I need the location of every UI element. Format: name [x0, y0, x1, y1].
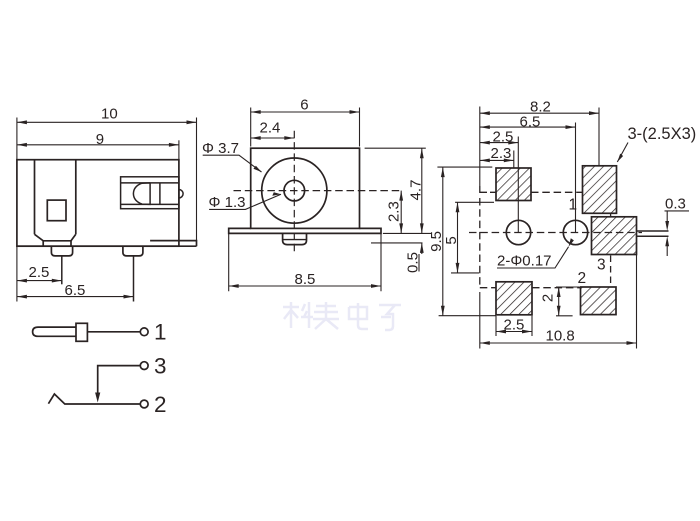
pin1 terminal circle	[140, 328, 148, 336]
bottom edge extended	[17, 245, 197, 247]
bump inner line	[283, 239, 307, 241]
ext 6.5 right	[575, 123, 577, 233]
body	[251, 148, 360, 228]
watermark	[283, 302, 401, 330]
ext 9.5 top	[437, 166, 492, 168]
contact divider	[159, 183, 161, 205]
pad top-left	[496, 168, 531, 201]
left view dimensions	[17, 118, 197, 302]
ext 2 dim bottom	[556, 315, 573, 317]
svg-text:10: 10	[101, 106, 118, 123]
hole right	[563, 220, 587, 244]
outline bottom dashed	[480, 287, 581, 289]
svg-text:4.7: 4.7	[407, 180, 424, 201]
ext 2 dim top	[556, 286, 579, 288]
svg-text:2: 2	[154, 392, 167, 417]
contact housing	[121, 177, 179, 209]
svg-text:8.5: 8.5	[295, 271, 316, 288]
dim line 10	[17, 121, 197, 123]
dim line 9	[17, 144, 179, 146]
svg-text:3-(2.5X3): 3-(2.5X3)	[628, 125, 697, 143]
pin2 wire with spring	[48, 394, 140, 404]
foot ticks	[43, 241, 71, 246]
arrows 9.5	[441, 167, 445, 177]
ext 2.3 right	[513, 151, 515, 169]
contact inner bottom line	[121, 203, 179, 205]
ext left main	[479, 107, 481, 187]
dim line 2	[558, 287, 560, 316]
dim line 6.5	[17, 296, 134, 298]
ext line left	[16, 118, 18, 302]
pin1 wire	[87, 331, 140, 333]
arrows 2	[557, 287, 561, 297]
outline left dashed	[479, 198, 481, 288]
left pin	[51, 246, 72, 256]
dim line 2.3	[400, 191, 402, 234]
middle view dimensions	[203, 108, 432, 292]
hole left	[506, 220, 530, 244]
dim line 5	[457, 202, 459, 273]
arrows 6	[251, 110, 261, 114]
arrows 5	[456, 202, 460, 212]
pin tip bulge	[179, 190, 183, 198]
pin1 collar rect	[76, 323, 87, 341]
ext 2.5b left	[495, 316, 497, 336]
arrows 6.5	[480, 125, 490, 129]
ext 10.8 right	[636, 255, 638, 349]
ext 2.5b right	[531, 316, 533, 336]
svg-text:1: 1	[569, 197, 578, 214]
dim line 2.4	[251, 137, 295, 139]
contact inner top line	[121, 182, 179, 184]
svg-text:2.3: 2.3	[491, 145, 512, 162]
ext 2.5 right	[517, 137, 519, 233]
inner square window	[47, 200, 66, 221]
centerlines	[234, 131, 402, 253]
ext top right 4.7	[365, 147, 426, 149]
arrows 2.5b	[496, 330, 506, 334]
dim line 2.5	[17, 280, 62, 282]
arrow phi3.7	[253, 166, 261, 172]
ext flange bottom right	[383, 232, 431, 234]
pin3 terminal circle	[140, 362, 148, 370]
pad 1 top-right	[583, 166, 617, 214]
svg-text:2.5: 2.5	[493, 128, 514, 145]
ext 5 bottom	[451, 272, 479, 274]
svg-text:1: 1	[154, 320, 167, 345]
ext line right 9	[178, 140, 180, 159]
dashed outline	[469, 186, 669, 288]
arrows 10	[17, 120, 27, 124]
svg-text:2.5: 2.5	[504, 317, 525, 334]
right pin	[123, 246, 143, 256]
arrow leader pads	[617, 154, 623, 162]
dim 0.5 stem	[421, 243, 423, 254]
pin2 terminal circle	[140, 400, 148, 408]
svg-text:2.3: 2.3	[385, 201, 402, 222]
leader 3-(2.5X3)	[617, 143, 628, 163]
svg-text:6.5: 6.5	[65, 282, 86, 299]
svg-text:6: 6	[300, 97, 308, 114]
dim 0.5 underline	[418, 254, 420, 272]
horizontal centerline	[234, 190, 402, 192]
vertical centerline	[293, 131, 295, 253]
right flange	[150, 241, 196, 247]
pin3 arrowhead	[95, 393, 100, 403]
outline top dashed	[490, 191, 582, 193]
bump	[283, 233, 307, 244]
svg-text:2.5: 2.5	[29, 264, 50, 281]
arrow 2-phi0.17	[569, 238, 574, 247]
right view dimensions	[437, 107, 689, 349]
dim line 4.7	[421, 148, 423, 233]
arrows 9	[17, 143, 27, 147]
arrows 2.3	[480, 159, 490, 163]
arrows 10.8	[480, 341, 490, 345]
contact bullet	[133, 183, 150, 205]
arrows 2.5	[17, 279, 27, 283]
pin wires	[61, 256, 63, 284]
pin1 barrel capsule	[33, 327, 76, 336]
svg-text:6.5: 6.5	[520, 113, 541, 130]
ext 8.2 right	[598, 108, 600, 166]
arrows 4.7	[420, 148, 424, 158]
lead lines 0.3	[637, 231, 669, 236]
svg-text:9: 9	[96, 131, 104, 148]
svg-text:2: 2	[539, 294, 556, 302]
arrows 2.4	[251, 136, 261, 140]
body outline	[17, 160, 179, 247]
small circle	[284, 180, 305, 201]
ext lines 8.5	[229, 233, 381, 291]
arrow 0.5	[420, 243, 424, 253]
svg-text:10.8: 10.8	[546, 328, 575, 345]
arrow phi1.3	[272, 192, 281, 196]
svg-text:0.5: 0.5	[404, 252, 421, 273]
flange	[229, 228, 381, 233]
dim line 10.8	[480, 342, 637, 344]
arrows 0.3	[665, 221, 669, 231]
arrows 8.5	[229, 284, 239, 288]
svg-text:0.3: 0.3	[665, 196, 686, 213]
ext line right 10	[196, 118, 198, 241]
ext 9.5 bottom	[439, 315, 496, 317]
dim line 2.5	[480, 142, 519, 144]
ext 5 top	[455, 201, 494, 203]
arrows 6.5	[17, 295, 27, 299]
svg-text:Φ 1.3: Φ 1.3	[209, 194, 246, 211]
inner wall left	[34, 160, 36, 235]
svg-text:2: 2	[578, 270, 587, 287]
svg-text:2.4: 2.4	[260, 119, 281, 136]
hole centerline dashed	[469, 232, 642, 234]
outline right dashed	[610, 256, 612, 288]
dim line 6.5	[480, 126, 576, 128]
svg-text:5: 5	[443, 236, 460, 244]
dim line 2.3	[480, 159, 514, 161]
arrows 8.2	[480, 111, 490, 115]
pad 2 bottom-right	[581, 287, 617, 315]
ext lines 6	[251, 108, 360, 147]
big circle	[262, 158, 327, 223]
connector pad1-pad3	[610, 213, 612, 217]
arrows 2.3	[399, 191, 403, 201]
leader 2-phi0.17	[497, 247, 569, 268]
outline corner foot	[480, 186, 487, 192]
phi1.3 leader	[209, 194, 281, 209]
pad bottom-left	[496, 282, 532, 315]
pin3 wire	[98, 366, 141, 393]
svg-text:2-Φ0.17: 2-Φ0.17	[497, 253, 552, 270]
foot chamfers	[35, 234, 76, 241]
dim line 6	[251, 111, 360, 113]
svg-text:Φ 3.7: Φ 3.7	[202, 140, 239, 157]
phi3.7 leader	[203, 155, 262, 172]
dim line 8.2	[480, 112, 599, 114]
svg-text:3: 3	[597, 257, 606, 274]
inner wall right	[75, 160, 77, 235]
pad 3 right	[592, 217, 637, 255]
arrows 2.5	[480, 141, 490, 145]
ext 10.8 left	[479, 292, 481, 349]
dim line 9.5	[442, 167, 444, 316]
dim line 2.5b	[496, 331, 532, 333]
dim line 8.5	[229, 285, 381, 287]
svg-text:3: 3	[154, 354, 167, 379]
ext bump bottom right	[371, 242, 423, 244]
dim 0.3 underline and stem	[665, 211, 690, 256]
